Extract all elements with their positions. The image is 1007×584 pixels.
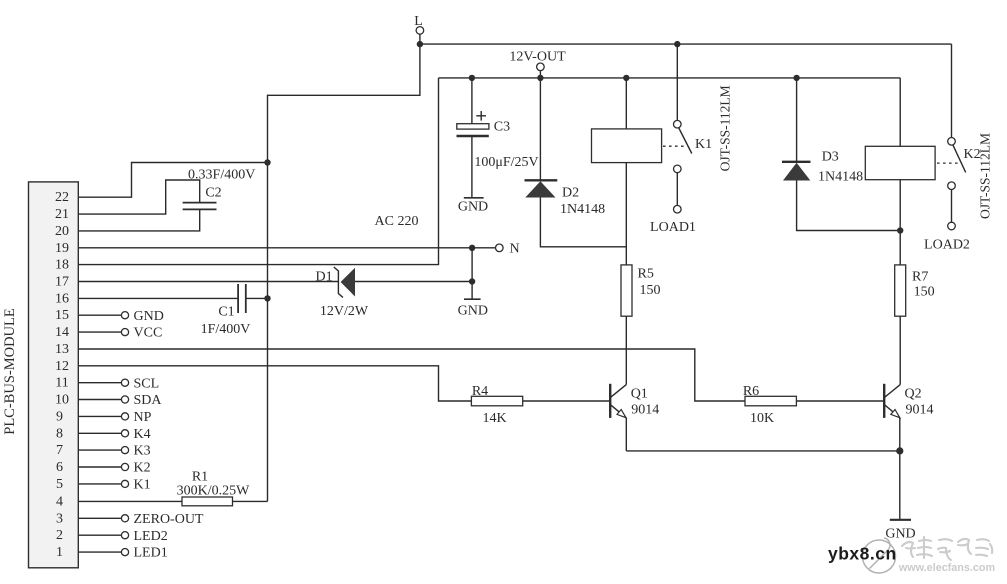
wire pin 9: [78, 415, 121, 417]
wire pin 11: [78, 382, 121, 384]
svg-text:R6: R6: [743, 384, 759, 399]
wire Q2 emitter down: [899, 418, 901, 451]
svg-text:12V-OUT: 12V-OUT: [509, 49, 566, 64]
svg-text:20: 20: [55, 224, 69, 239]
wire pin 5: [78, 483, 121, 485]
wire pin 19 to node N: [78, 247, 472, 249]
svg-text:22: 22: [55, 190, 69, 205]
wire D3 anode to K2 coil net: [797, 181, 901, 231]
svg-text:LOAD2: LOAD2: [924, 237, 970, 252]
svg-text:6: 6: [56, 460, 63, 475]
wire pin 21 to C2 top: [78, 180, 199, 214]
watermark chinese calligraphy strokes: [902, 537, 992, 560]
svg-text:OJT-SS-112LM: OJT-SS-112LM: [717, 85, 732, 171]
diode D2 1N4148: [539, 78, 541, 180]
svg-text:300K/0.25W: 300K/0.25W: [177, 483, 251, 498]
resistor R7: [895, 265, 906, 316]
wire pin 22 to node L-net: [78, 163, 267, 198]
wire pin 3: [78, 517, 121, 519]
svg-text:GND: GND: [458, 304, 488, 319]
terminal K2 pin 6: [121, 463, 128, 470]
svg-text:150: 150: [914, 285, 935, 300]
relay K2 coil OJT-SS-112LM: [899, 78, 901, 146]
terminal VCC pin 14: [121, 329, 128, 336]
svg-text:Q1: Q1: [631, 387, 648, 402]
wire pin 14: [78, 331, 121, 333]
svg-text:150: 150: [640, 283, 661, 298]
terminal SCL pin 11: [121, 379, 128, 386]
terminal NP pin 9: [121, 413, 128, 420]
capacitor C3: [471, 78, 473, 124]
relay K2 switch contacts: [948, 138, 956, 146]
svg-text:C2: C2: [205, 185, 221, 200]
wire to N terminal: [472, 247, 495, 249]
wire C1 right to L-net: [246, 297, 268, 299]
terminal 12V-OUT: [537, 63, 545, 71]
wire L rail to K2 switch: [951, 44, 953, 137]
wire pin 20 to C2 bottom: [78, 209, 199, 231]
wire to bottom ground: [899, 451, 901, 520]
svg-text:14: 14: [55, 325, 69, 340]
wire R5 to Q1 collector: [625, 316, 627, 384]
resistor R1: [182, 497, 233, 506]
wire emitter bus: [626, 450, 900, 452]
node junction emitter bus: [896, 447, 903, 454]
svg-text:5: 5: [56, 477, 63, 492]
resistor R5: [621, 265, 632, 316]
svg-text:8: 8: [56, 426, 63, 441]
wire pin 16 to C1: [78, 297, 238, 299]
wire pin 10: [78, 399, 121, 401]
svg-text:C3: C3: [494, 120, 510, 135]
resistor R4: [471, 396, 522, 406]
relay K2 dashed link: [937, 162, 959, 164]
terminal K4 pin 8: [121, 430, 128, 437]
svg-text:15: 15: [55, 308, 69, 323]
terminal K1 pin 5: [121, 480, 128, 487]
wire pin 1: [78, 551, 121, 553]
ground bottom: [890, 519, 911, 521]
svg-text:13: 13: [55, 342, 69, 357]
svg-text:GND: GND: [885, 526, 915, 541]
svg-text:K1: K1: [695, 137, 712, 152]
node junction L rail / K1 switch: [417, 41, 423, 47]
capacitor C2: [183, 202, 217, 204]
ground mid: [464, 298, 481, 300]
wire pin 12 to R4: [78, 366, 471, 401]
svg-text:SCL: SCL: [134, 376, 160, 391]
svg-text:LED1: LED1: [134, 546, 168, 561]
svg-text:GND: GND: [458, 200, 488, 215]
svg-text:R7: R7: [912, 270, 928, 285]
svg-text:R4: R4: [472, 384, 488, 399]
svg-text:SDA: SDA: [134, 393, 163, 408]
svg-text:21: 21: [55, 207, 69, 222]
svg-text:D1: D1: [316, 269, 333, 284]
svg-text:14K: 14K: [482, 411, 506, 426]
connector J1 PLC-BUS-MODULE body: [29, 182, 79, 568]
svg-text:ZERO-OUT: ZERO-OUT: [134, 512, 204, 527]
svg-text:18: 18: [55, 258, 69, 273]
ground C3: [464, 197, 484, 199]
svg-text:100μF/25V: 100μF/25V: [474, 155, 538, 170]
transistor Q2 9014: [883, 384, 885, 418]
svg-text:R5: R5: [638, 267, 654, 282]
svg-text:12: 12: [55, 359, 69, 374]
svg-text:NP: NP: [134, 410, 152, 425]
wire N to ground: [471, 248, 473, 299]
svg-text:9014: 9014: [631, 403, 659, 418]
svg-text:7: 7: [56, 443, 63, 458]
svg-text:19: 19: [55, 241, 69, 256]
svg-text:D3: D3: [822, 149, 839, 164]
svg-text:10: 10: [55, 393, 69, 408]
wire pin 6: [78, 466, 121, 468]
svg-text:VCC: VCC: [134, 326, 163, 341]
capacitor C1: [237, 284, 239, 313]
wire L rail to K1 switch: [676, 44, 678, 120]
wire L-net vertical trunk: [268, 44, 420, 501]
svg-text:K4: K4: [134, 427, 151, 442]
svg-text:3: 3: [56, 511, 63, 526]
terminal LED1 pin 1: [121, 549, 128, 556]
wire pin 8: [78, 432, 121, 434]
label C3 plus: [476, 115, 486, 117]
svg-text:D2: D2: [562, 185, 579, 200]
wire D2 anode to K1 coil net: [540, 198, 626, 247]
svg-text:www.elecfans.com: www.elecfans.com: [898, 562, 995, 574]
node junction D1 anode: [469, 278, 475, 284]
resistor R6: [745, 396, 796, 406]
svg-text:GND: GND: [134, 309, 164, 324]
svg-text:1N4148: 1N4148: [560, 202, 605, 217]
relay K1 dashed link: [663, 145, 686, 147]
svg-text:16: 16: [55, 291, 69, 306]
terminal SDA pin 10: [121, 396, 128, 403]
wire R4 to Q1 base: [523, 400, 610, 402]
svg-text:C1: C1: [218, 305, 234, 320]
node junctions on 12V rail: [469, 75, 475, 81]
node N junction: [469, 245, 475, 251]
wire pin 2: [78, 534, 121, 536]
svg-text:PLC-BUS-MODULE: PLC-BUS-MODULE: [2, 308, 18, 435]
wire L rail: [420, 43, 952, 45]
node junction C1/L-net: [264, 295, 270, 301]
svg-text:R1: R1: [192, 469, 208, 484]
wire C3 to ground: [471, 136, 473, 198]
svg-text:1F/400V: 1F/400V: [201, 322, 251, 337]
wire pin 7: [78, 449, 121, 451]
svg-text:2: 2: [56, 528, 63, 543]
svg-text:10K: 10K: [750, 411, 774, 426]
wire pin 4 to R1: [78, 500, 182, 502]
wire pin 13 to R6: [78, 349, 745, 401]
relay K1 switch contacts: [674, 120, 682, 128]
wire R6 to Q2 base: [796, 400, 884, 402]
wire R7 to Q2 collector: [899, 316, 901, 384]
svg-text:L: L: [414, 14, 423, 29]
wire 12V rail: [439, 77, 901, 79]
wire pin 17 to D1: [78, 281, 338, 283]
svg-text:1: 1: [56, 545, 63, 560]
node junction D3/K2 coil: [897, 227, 903, 233]
wire pin 15: [78, 314, 121, 316]
terminal K3 pin 7: [121, 447, 128, 454]
terminal ZERO-OUT pin 3: [121, 515, 128, 522]
svg-text:LED2: LED2: [134, 529, 168, 544]
relay K1 coil OJT-SS-112LM: [625, 78, 627, 129]
svg-text:N: N: [510, 241, 520, 256]
terminal LED2 pin 2: [121, 532, 128, 539]
svg-text:OJT-SS-112LM: OJT-SS-112LM: [977, 133, 992, 219]
terminal L: [416, 27, 424, 35]
svg-text:K1: K1: [134, 478, 151, 493]
terminal GND pin 15: [121, 312, 128, 319]
svg-text:K2: K2: [134, 461, 151, 476]
svg-text:0.33F/400V: 0.33F/400V: [188, 168, 255, 183]
svg-text:9014: 9014: [906, 403, 934, 418]
svg-text:LOAD1: LOAD1: [650, 220, 696, 235]
wire pin 18 to 12V rail: [78, 78, 438, 265]
watermark logo circle: [863, 538, 896, 573]
transistor Q1 9014: [609, 384, 611, 418]
zener diode D1 12V/2W: [334, 267, 343, 298]
node junction pin22/L-net: [264, 159, 270, 165]
terminal N: [496, 244, 504, 252]
diode D3 1N4148: [796, 78, 798, 162]
wire R1 to L-net vertical: [233, 500, 268, 502]
svg-text:1N4148: 1N4148: [818, 170, 863, 185]
svg-text:11: 11: [55, 376, 68, 391]
svg-text:4: 4: [56, 494, 63, 509]
svg-text:ybx8.cn: ybx8.cn: [828, 544, 897, 564]
svg-text:12V/2W: 12V/2W: [320, 304, 369, 319]
svg-text:AC 220: AC 220: [375, 214, 419, 229]
svg-text:Q2: Q2: [905, 387, 922, 402]
wire Q1 emitter down: [625, 418, 627, 451]
svg-text:9: 9: [56, 409, 63, 424]
svg-text:K3: K3: [134, 444, 151, 459]
svg-text:17: 17: [55, 275, 69, 290]
